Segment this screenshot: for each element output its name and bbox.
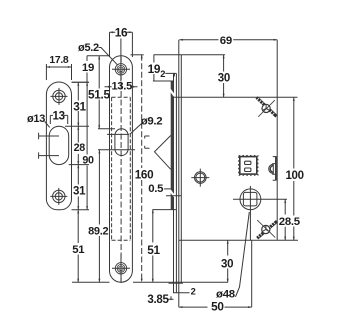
faceplate bottom edge	[169, 282, 184, 284]
svg-text:30: 30	[221, 258, 233, 270]
svg-text:69: 69	[220, 35, 232, 47]
magnet square component	[239, 155, 258, 175]
svg-text:13: 13	[52, 111, 64, 123]
extension lines left plate	[65, 82, 89, 210]
svg-text:160: 160	[135, 168, 154, 181]
arc-center marker lines with ticks	[39, 133, 59, 159]
dim 51.5 line	[98, 56, 100, 129]
svg-text:17.8: 17.8	[49, 55, 69, 66]
dim 19 right bracket	[153, 55, 155, 81]
svg-text:13.5: 13.5	[112, 81, 133, 93]
dim 51 left line	[77, 210, 79, 282]
leader 0.5	[164, 189, 181, 196]
strip top ext	[153, 80, 174, 82]
cover top small edge	[174, 72, 177, 74]
dim 30 top	[223, 55, 225, 98]
svg-text:ø5.2: ø5.2	[78, 42, 99, 54]
strike box bottom	[152, 209, 176, 211]
svg-text:ø9.2: ø9.2	[141, 115, 163, 127]
svg-text:50: 50	[211, 299, 224, 313]
body right edge	[276, 40, 278, 240]
obround cutout	[49, 126, 68, 164]
leader for dia 13	[45, 122, 50, 128]
svg-text:30: 30	[218, 73, 230, 85]
svg-text:ø13: ø13	[27, 113, 45, 125]
leader o9.2	[130, 124, 142, 134]
follower with square spindle	[233, 186, 287, 240]
centre dashed line	[120, 57, 122, 281]
top screw hole	[51, 88, 68, 105]
strike plate outline	[46, 82, 71, 210]
dim 13 bracket	[50, 115, 67, 124]
svg-text:2: 2	[191, 286, 196, 296]
top screw hole	[112, 39, 130, 82]
dim 13.5	[105, 86, 138, 88]
dim 28.5	[284, 199, 286, 240]
bottom screw hole	[50, 188, 67, 205]
face plate outline	[110, 56, 133, 283]
dim 51 right	[152, 210, 154, 283]
chevron latch profile	[155, 136, 171, 170]
bottom small dims ext	[174, 283, 179, 307]
svg-text:100: 100	[285, 170, 303, 182]
body bottom edge	[179, 239, 298, 241]
bottom ext line shared	[133, 281, 228, 283]
screw bottom-right	[257, 220, 277, 238]
leader o5.2	[99, 48, 118, 65]
dim 100	[277, 97, 297, 240]
svg-text:2: 2	[160, 69, 165, 79]
faceplate top edge	[154, 54, 226, 56]
rubber strip	[171, 81, 174, 210]
svg-text:89.2: 89.2	[88, 225, 108, 237]
leader 2 top	[165, 73, 174, 76]
body top edge	[174, 96, 278, 98]
screw top-right	[257, 98, 277, 117]
dim 160 dashed line	[141, 55, 143, 282]
bottom ext line left	[72, 281, 110, 283]
dim 16	[110, 31, 133, 57]
svg-text:31: 31	[73, 99, 86, 113]
svg-text:0.5: 0.5	[148, 183, 164, 195]
svg-text:3.85: 3.85	[147, 294, 169, 306]
svg-text:51.5: 51.5	[88, 88, 110, 102]
faceplate vertical lines	[174, 40, 182, 283]
dim 19 left bracket	[72, 56, 110, 82]
svg-text:51: 51	[147, 243, 160, 257]
crosshair hole body	[191, 169, 209, 187]
dim 89.2 line	[98, 150, 100, 282]
svg-text:16: 16	[115, 26, 128, 40]
dim 50	[179, 240, 252, 308]
svg-text:19: 19	[82, 62, 94, 74]
svg-text:51: 51	[72, 244, 85, 256]
dim 17.8 lines	[46, 64, 71, 80]
leader o48	[236, 212, 250, 297]
hidden body edges inside plate	[112, 97, 131, 240]
latch on right edge	[269, 156, 277, 181]
marker lines mid cutout	[98, 134, 150, 149]
bottom screw hole	[112, 254, 130, 283]
dim 90 line	[86, 82, 88, 210]
cutout top ext	[98, 128, 115, 130]
dim 69	[179, 39, 277, 41]
svg-text:19: 19	[148, 62, 161, 76]
160 top ext	[131, 54, 144, 56]
svg-text:28.5: 28.5	[279, 216, 301, 228]
svg-text:90: 90	[82, 154, 94, 166]
svg-text:31: 31	[73, 185, 86, 197]
dim chain 31/28/31 line	[77, 82, 79, 210]
obround cutout mid	[115, 129, 128, 156]
svg-text:28: 28	[74, 142, 86, 154]
dim 30 bottom	[227, 240, 229, 282]
